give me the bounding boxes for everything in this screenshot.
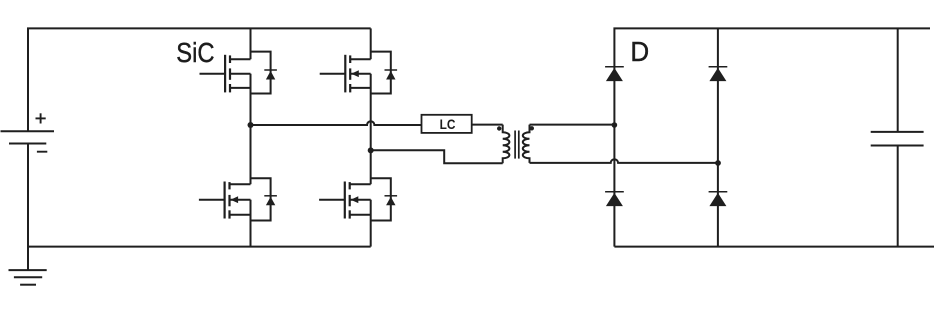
- svg-text:SiC: SiC: [176, 37, 214, 68]
- svg-text:D: D: [630, 36, 649, 67]
- svg-text:LC: LC: [440, 117, 456, 133]
